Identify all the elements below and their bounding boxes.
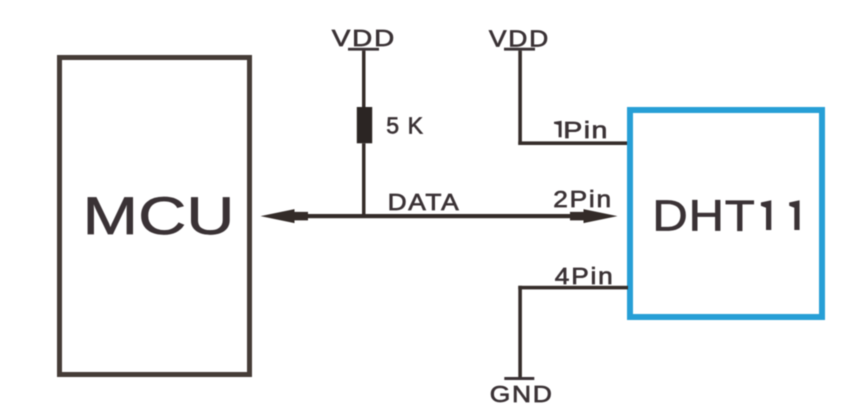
svg-text:VDD: VDD (332, 26, 396, 51)
svg-text:2Pin: 2Pin (553, 187, 613, 212)
DHT11 block U2 (630, 110, 822, 317)
label 5K (386, 113, 431, 139)
svg-text:GND: GND (490, 383, 554, 408)
svg-text:Pin: Pin (563, 118, 609, 143)
svg-text:4Pin: 4Pin (555, 264, 615, 289)
pin label 2Pin (553, 187, 613, 212)
power rail bar (left VDD) (348, 48, 379, 51)
arrowhead into MCU (left) (261, 209, 309, 223)
arrowhead into DHT11 2Pin (right) (570, 209, 618, 223)
svg-text:MCU: MCU (83, 187, 235, 246)
wire VDD to 1Pin (vertical) (518, 51, 522, 145)
net label DATA (388, 190, 461, 215)
ground rail bar (504, 377, 534, 380)
pin label 4Pin (555, 264, 615, 289)
wire resistor to DATA node (362, 143, 366, 216)
pin label 1Pin (554, 118, 609, 143)
MCU label (83, 187, 235, 246)
net label VDD (right) (489, 27, 550, 52)
DHT11 label (652, 191, 799, 240)
MCU block U1 (60, 58, 250, 375)
svg-text:5K: 5K (386, 113, 431, 139)
wire 4Pin to GND (vertical) (518, 286, 522, 377)
wire 4Pin to GND (horizontal from DHT11) (518, 286, 628, 290)
wire VDD rail to resistor (362, 51, 366, 108)
net label VDD (pull-up, left) (332, 26, 396, 51)
net label GND (490, 383, 554, 408)
svg-text:DATA: DATA (388, 190, 461, 215)
power rail bar (right VDD) (504, 48, 535, 51)
svg-text:DHT: DHT (652, 191, 755, 240)
resistor R1 5K (357, 107, 372, 143)
wire VDD to 1Pin (horizontal into DHT11) (518, 141, 628, 145)
DATA wire (bidirectional bus) (294, 214, 584, 218)
